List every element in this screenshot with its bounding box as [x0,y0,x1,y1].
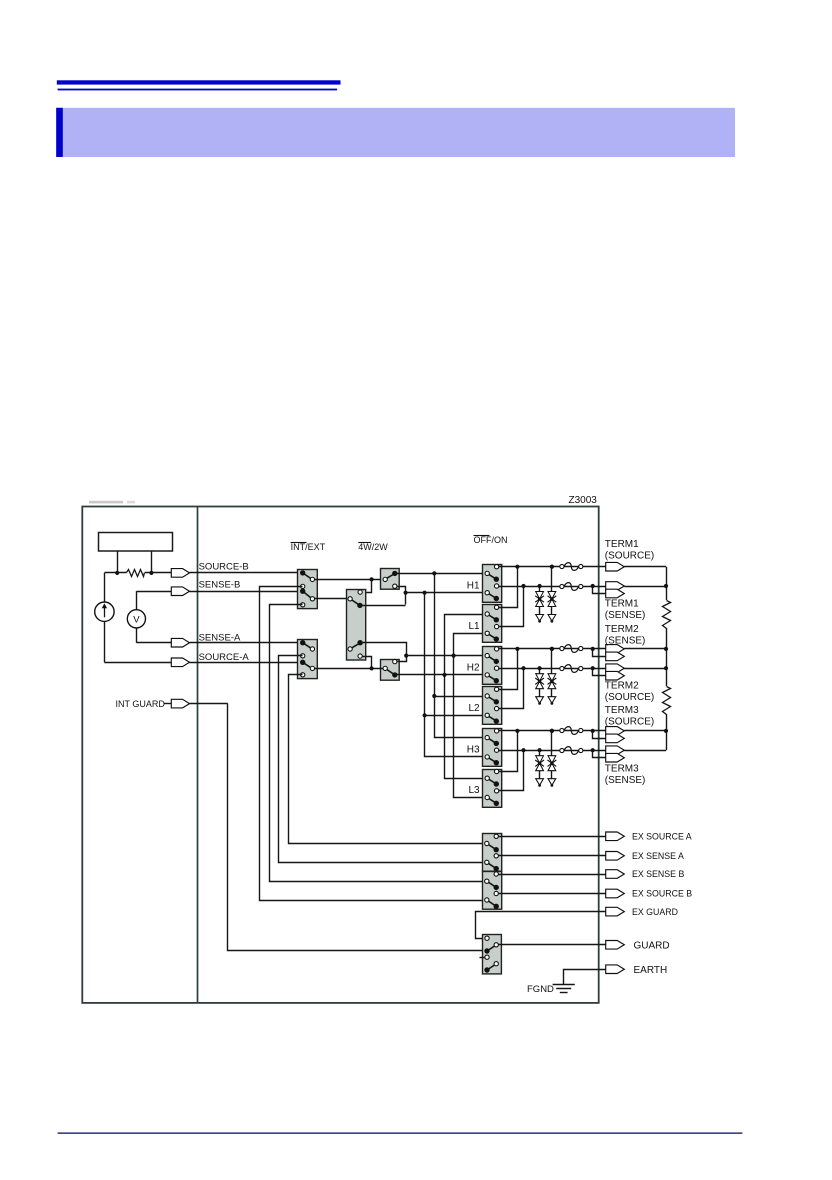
switch S2b common [300,660,305,665]
label SENSE-B [199,580,241,591]
internal divider [197,507,199,1003]
relay 4W/2W tall body [347,590,366,661]
switch tall bottom blade [352,643,359,647]
switch tall top blade [352,600,359,605]
bus V2 [435,574,485,738]
contact small-top aux [393,584,397,588]
label H2 [467,663,480,674]
contact S2a out [310,647,314,651]
node T2 sen conn [591,647,595,651]
wire rail seg2 [666,628,668,686]
fuse F2 [560,583,583,591]
label L2 [468,703,480,714]
svg-text:(SOURCE): (SOURCE) [605,551,654,562]
svg-text:V: V [133,614,140,625]
wire T1 sense to rail [624,586,666,588]
connector TERM2 SENSE lower [606,652,625,661]
wire EXT sense-b run [260,587,485,901]
node T1 sen tap [521,584,525,588]
label TERM3 SENSE [605,763,646,786]
fuse F5 [560,727,583,735]
label TERM1 SOURCE [605,539,654,562]
header double rule thick [57,80,341,84]
node H2 feed join [404,654,408,658]
wire S2b-out to small-bot [315,668,383,670]
svg-text:FGND: FGND [527,984,554,995]
wire SENSE-A left [136,642,171,644]
switch guard2 common [484,967,489,972]
section banner bar [56,108,735,157]
relay EX bank lower body [483,872,502,910]
wire T3 source to rail [624,730,666,732]
switch small-bot blade [387,670,394,675]
wire T3 source step [593,731,606,739]
current source I1 [95,602,114,621]
wire T3 sense step [593,751,606,758]
switch small-top throw [392,571,397,576]
svg-text:H3: H3 [467,745,480,756]
label EARTH [634,965,668,976]
connector EX SENSE B [606,870,625,879]
relay GUARD body [483,935,502,974]
svg-text:SOURCE-B: SOURCE-B [199,561,249,572]
connector TERM3 SENSE lower [606,753,625,762]
connector SENSE-B [171,587,189,596]
wire source block left leg [117,551,119,573]
node 4W tap A [370,666,374,670]
contact tall bottom aux [358,654,362,658]
relay H3 body [483,729,502,767]
contact S1b out [310,597,314,601]
svg-text:Z3003: Z3003 [569,495,598,506]
wire T3 sense to rail [624,750,666,752]
svg-text:(SENSE): (SENSE) [605,636,646,647]
connector EX SENSE A [606,852,625,861]
wire tall-bottom throw link [361,643,407,662]
header 4W/2W [358,542,388,552]
contact tall top aux [358,590,362,594]
node rail T2a [664,647,668,651]
tvs D2 column [548,565,557,623]
relay L2 body [483,687,502,725]
ground FGND [553,985,575,993]
label SOURCE-B [199,561,249,572]
node T3 src conn [591,729,595,733]
wire INT GUARD [190,703,228,705]
wire tap to tall relay top contact [363,580,372,593]
label EX SOURCE A [632,832,692,842]
relay INT/EXT B body [298,570,318,609]
node T3 sen conn [591,748,595,752]
node H1 sense join [404,591,408,595]
contact guard ext [485,936,489,940]
svg-text:(SOURCE): (SOURCE) [605,692,654,703]
svg-text:H2: H2 [467,663,480,674]
wire rail seg3 [666,714,668,750]
switch small-bot throw [392,672,397,677]
connector SENSE-A [171,638,189,647]
label L3 [468,785,480,796]
svg-text:EX SENSE A: EX SENSE A [632,851,684,861]
wire L2 sense tap [499,649,518,690]
switch S2a blade [303,643,311,649]
label EX SOURCE B [632,889,692,899]
wire H2 feed b [395,674,485,676]
wire L3 sense tap [499,751,524,791]
contact S2b out [310,666,314,670]
node T2 src conn [591,666,595,670]
wire L2 source tap [499,669,524,709]
contact S1a ext [301,584,305,588]
wire S1b-out to tall relay [315,598,348,600]
svg-text:INT/EXT: INT/EXT [291,542,326,552]
node rail T2b [664,666,668,670]
label TERM2 SENSE [605,624,646,647]
switch S1a common [300,570,305,575]
node rail T1 [664,584,668,588]
wire T2 sense step [593,649,606,657]
faint figure caption [89,501,135,504]
label EX GUARD [632,907,678,917]
svg-text:TERM3: TERM3 [605,763,639,774]
contact S1a out [310,577,314,581]
tvs D1 column [535,584,544,623]
wire GUARD out [499,944,606,946]
footer rule [58,1132,743,1134]
label EX SENSE A [632,851,684,861]
header INT/EXT [291,542,326,552]
svg-text:EX SOURCE B: EX SOURCE B [632,889,692,899]
header OFF/ON [474,535,508,545]
wire INT GUARD stub [164,703,172,705]
node source bus left [115,571,119,575]
wire INT GUARD run [228,704,485,951]
node V2 top [432,571,436,575]
label TERM3 SOURCE [605,705,654,728]
label GUARD [634,940,670,951]
svg-text:TERM1: TERM1 [605,599,639,610]
relay INT/EXT A body [298,640,318,679]
contact guard1 out [494,943,498,947]
relay H2 body [483,647,502,685]
connector TERM2 SENSE upper [606,645,625,654]
wire EARTH [564,970,606,985]
svg-text:TERM2: TERM2 [605,624,639,635]
connector TERM1 SENSE upper [606,582,625,591]
relay 4W/2W bottom small body [381,660,400,681]
contact tall top in [348,597,352,601]
node T2 sen tap [515,647,519,651]
connector TERM3 SENSE upper [606,746,625,755]
header double rule thin [58,89,338,91]
tvs D3 column [535,666,544,705]
connector EX GUARD [606,907,625,916]
svg-text:TERM3: TERM3 [605,705,639,716]
relay L3 body [483,769,502,807]
svg-text:INT GUARD: INT GUARD [116,699,166,709]
wire H2 feed a [406,655,485,657]
label EX SENSE B [632,869,684,879]
node T3 src tvs [550,729,554,733]
wire H1 feed source [395,573,485,575]
node T1 src tvs [550,565,554,569]
contact guard mid stub [480,955,490,959]
contact S2a ext [301,654,305,658]
switch guard1 blade [487,946,495,951]
node T2 sen tvs [550,647,554,651]
svg-text:TERM2: TERM2 [605,681,639,692]
wire T2 source to rail [624,668,666,670]
connector SOURCE-B [171,569,189,578]
wire SENSE-A [190,642,303,644]
node T1 sen conn [591,584,595,588]
bus V1 [425,593,485,757]
switch S1b blade [303,591,311,598]
wire EX SOURCE B [499,893,606,895]
wire EXT sense-b2 run [270,605,485,882]
unit outer box [82,507,598,1003]
connector EARTH [606,965,625,974]
resistor R2 [663,687,671,715]
connector TERM2 SOURCE lower [606,671,625,680]
wire tap to tall bottom aux [363,657,372,669]
relay H1 body [483,565,502,603]
resistor R1 [663,601,671,629]
wire tall-top throw link [360,605,406,607]
contact small-bot in [383,666,387,670]
node V1 L2 [423,713,427,717]
wire current source bottom [104,621,106,662]
wire source bus [104,572,171,574]
svg-text:TERM1: TERM1 [605,539,639,550]
switch S1a blade [303,573,311,579]
svg-text:SOURCE-A: SOURCE-A [199,652,250,663]
bus V4 [454,634,485,798]
svg-text:EX SENSE B: EX SENSE B [632,869,684,879]
tvs D6 column [548,729,557,787]
wire SOURCE-A [190,662,303,664]
label INT GUARD [116,699,166,709]
wire small-top aux drop [398,587,406,605]
svg-text:L2: L2 [468,703,480,714]
contact small-bot aux [393,659,397,663]
wire EXT sense-a run [279,656,485,863]
node V4 mid [452,654,456,658]
svg-text:L1: L1 [468,621,480,632]
label H3 [467,745,480,756]
contact small-top in [383,577,387,581]
source block rectangle [99,533,173,552]
node T1 src tap [515,565,519,569]
svg-text:H1: H1 [467,580,480,591]
switch tall top throw [357,603,362,608]
connector SOURCE-A [171,658,189,667]
fuse F4 [560,665,583,673]
wire SOURCE-A left [104,662,171,664]
svg-text:SENSE-B: SENSE-B [199,580,241,591]
wire TERM3 sense [499,750,606,752]
wire TERM1 source [499,566,606,568]
switch S1b common [300,589,305,594]
wire L1 source tap [499,567,518,608]
wire voltmeter top [136,591,138,610]
node rail T3a [664,729,668,733]
svg-text:EARTH: EARTH [634,965,668,976]
wire S1a-out to 4W [315,579,383,581]
switch small-top blade [387,574,394,578]
wire rail seg1 [666,567,668,600]
resistor internal [127,570,145,577]
svg-text:(SENSE): (SENSE) [605,775,646,786]
wire L1 sense tap [499,587,524,627]
connector INT GUARD [171,699,189,708]
svg-text:EX SOURCE A: EX SOURCE A [632,832,692,842]
connector TERM3 SOURCE lower [606,734,625,743]
section banner left accent [56,108,63,157]
label SENSE-A [199,632,241,643]
wire L2 p2 link [425,715,485,717]
svg-text:SENSE-A: SENSE-A [199,632,241,643]
wire T1 sense step [593,587,606,594]
bus V3 [445,615,485,779]
label TERM1 SENSE [605,599,646,622]
svg-text:OFF/ON: OFF/ON [474,535,508,545]
connector GUARD [606,941,625,950]
node V1 top [423,591,427,595]
wire SOURCE-B [190,572,303,574]
wire H1 feed sense [406,592,485,594]
node T3 sen tap [521,748,525,752]
connector TERM2 SOURCE upper [606,664,625,673]
wire EXT source-a run [289,675,485,844]
wire EX SENSE A [499,855,606,857]
wire SENSE-B [190,591,303,593]
switch guard2 blade [487,965,495,971]
label SOURCE-A [199,652,250,663]
node source bus right [149,571,153,575]
fuse F1 [560,563,583,571]
label FGND [527,984,554,995]
svg-text:EX GUARD: EX GUARD [632,907,678,917]
wire TERM2 source [499,668,606,670]
wire T2 source step [593,669,606,676]
label Z3003 [569,495,598,506]
wire EX GUARD [476,912,606,939]
connector TERM3 SOURCE upper [606,727,625,736]
wire TERM2 sense [499,648,606,650]
switch S2a common [300,640,305,645]
tvs D4 column [548,647,557,705]
connector TERM1 SOURCE [606,562,625,571]
wire T2 sense to rail [624,648,666,650]
svg-text:(SENSE): (SENSE) [605,610,646,621]
switch tall bottom throw [357,640,362,645]
wire source block right leg [151,551,153,573]
connector EX SOURCE A [606,832,625,841]
wire L3 source tap [499,731,518,772]
node T2 src tap [521,666,525,670]
wire EX SOURCE A [499,836,606,838]
switch guard1 common [484,948,489,953]
svg-text:4W/2W: 4W/2W [358,542,388,552]
relay EX bank upper body [483,834,502,872]
switch S2b blade [303,662,311,668]
svg-text:GUARD: GUARD [634,940,670,951]
svg-text:(SOURCE): (SOURCE) [605,716,654,727]
contact tall bottom in [348,647,352,651]
node T3 src tap [515,729,519,733]
contact S2b ext [301,673,305,677]
wire SENSE-B left [136,591,171,593]
wire L2 p1 link [434,696,485,698]
wire T1 source to rail [624,566,666,568]
voltmeter V1 [127,610,145,628]
relay L1 body [483,605,502,643]
svg-text:L3: L3 [468,785,480,796]
label H1 [467,580,480,591]
fuse F6 [560,747,583,755]
connector EX SOURCE B [606,889,625,898]
contact guard2 out [494,962,498,966]
wire EX SENSE B [499,874,606,876]
label TERM2 SOURCE [605,681,654,704]
node V2 L2 [432,694,436,698]
wire voltmeter bottom [136,628,138,643]
tvs D5 column [535,748,544,787]
wire TERM3 source [499,730,606,732]
relay 4W/2W top small body [381,569,400,590]
label L1 [468,621,480,632]
fuse F3 [560,645,583,653]
wire current source top [104,573,106,602]
contact S1b ext [301,603,305,607]
node 4W tap B [370,577,374,581]
wire TERM1 sense [499,586,606,588]
node V3 mid [442,673,446,677]
connector TERM1 SENSE lower [606,589,625,598]
